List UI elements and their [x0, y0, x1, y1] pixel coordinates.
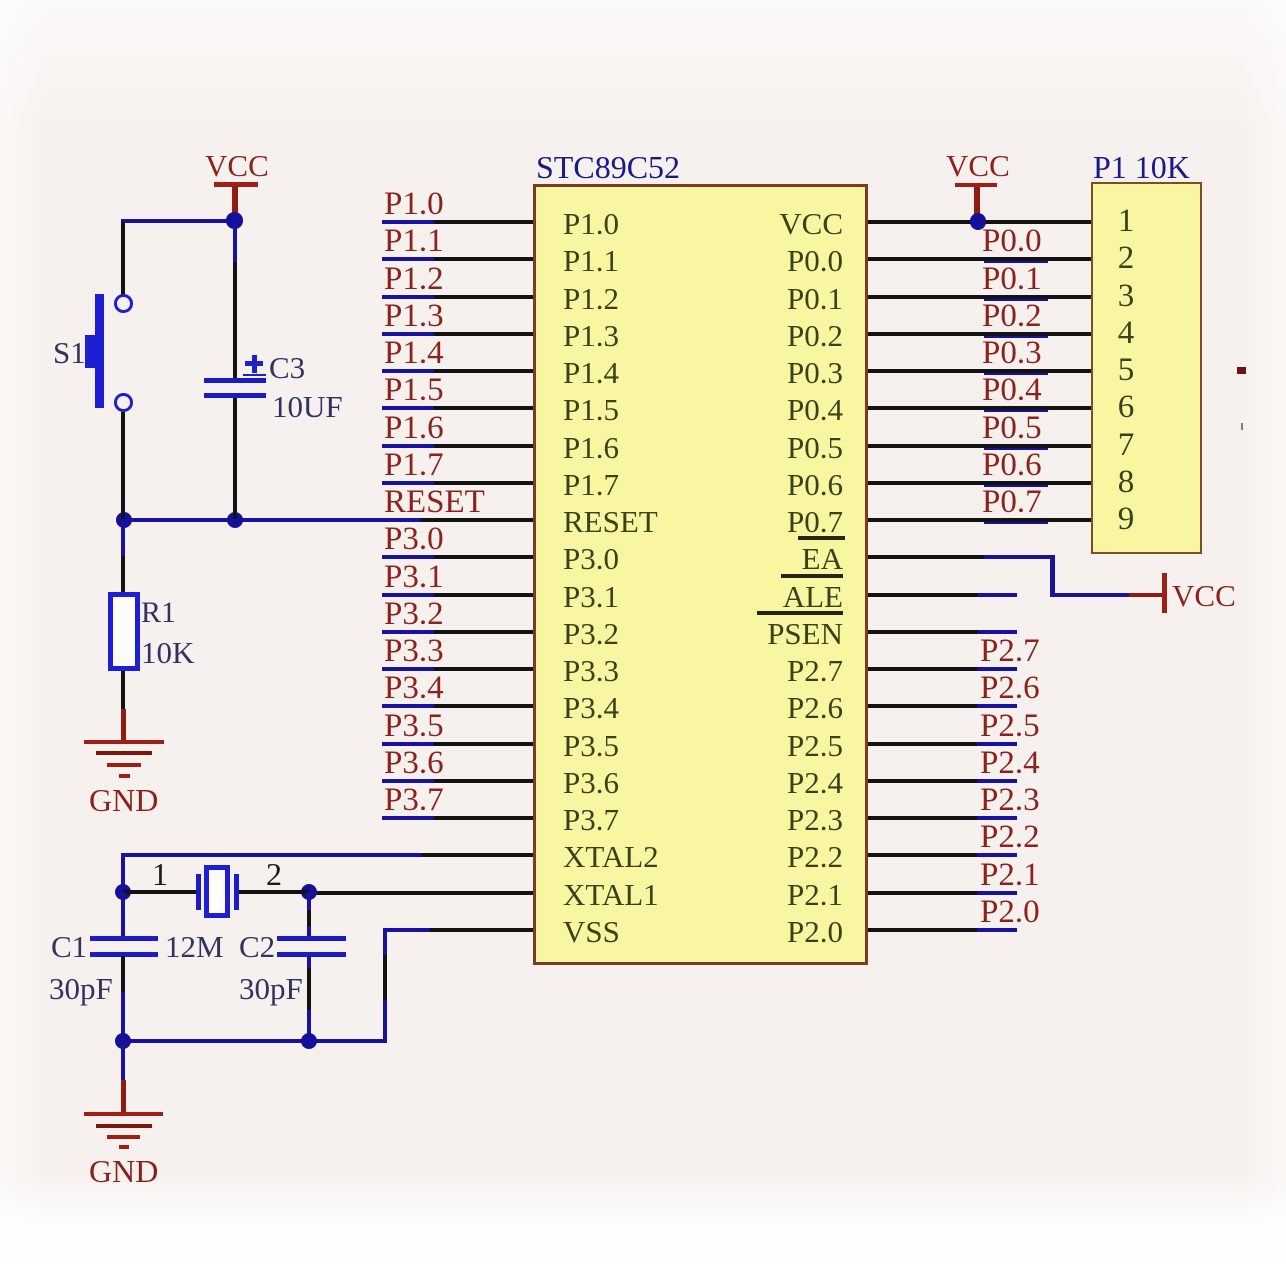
switch S1 designator: [53, 337, 86, 368]
U1 right pin name P2.2: [583, 841, 843, 872]
net label P3.3: [384, 635, 444, 668]
crystal pin number 1: [152, 858, 168, 890]
net label P0.1: [982, 263, 1042, 296]
wire net P1.4 to U1: [434, 369, 533, 373]
wire net P3.3 to U1: [434, 667, 533, 671]
crystal pin number 2: [266, 858, 282, 890]
wire net P1.1 to U1: [434, 257, 533, 261]
net label P1.7: [384, 449, 444, 482]
wire VCC node to S1: [121, 222, 125, 295]
resistor R1 body: [108, 592, 140, 671]
crystal Y1 left plate: [196, 874, 201, 910]
capacitor C3 top plate: [204, 378, 266, 383]
wire C3 to RESET node: [233, 398, 237, 519]
wire C2 to ground rail navy bottom: [307, 1010, 311, 1041]
wire crystal pin2: [238, 890, 309, 894]
junction crystal pin2 node: [301, 884, 317, 900]
ground symbol (rail) bar2: [96, 1124, 152, 1128]
wire U1 P2.4 navy: [977, 779, 1017, 783]
wire XTAL2 navy segment: [121, 853, 422, 857]
VCC symbol (EA) label: [1172, 580, 1236, 611]
crystal value 12M: [165, 931, 224, 962]
ground symbol (R1) bar2: [96, 751, 152, 755]
wire node2 to C2: [307, 910, 311, 926]
net label P3.6: [384, 747, 444, 780]
ground symbol (R1) bar3: [107, 763, 141, 767]
net label wire P1.5: [382, 406, 434, 410]
network pin number 2: [1112, 242, 1140, 275]
wire PSEN stub navy: [978, 630, 1017, 634]
wire EA black: [868, 555, 984, 559]
IC U1 title STC89C52: [536, 151, 680, 183]
net label P3.0: [384, 523, 444, 556]
capacitor C1 bottom plate: [90, 952, 159, 957]
net label P1.2: [384, 263, 444, 296]
net label wire P3.5: [382, 742, 434, 746]
U1 right pin name PSEN: [583, 618, 843, 649]
U1 left pin name P1.6: [563, 432, 619, 463]
net label P0.2: [982, 300, 1042, 333]
capacitor C1 top plate: [90, 936, 159, 941]
U1 right pin name P2.0: [583, 916, 843, 947]
resistor R1 value 10K: [141, 637, 194, 668]
net label RESET: [384, 486, 485, 519]
net label P2.4: [980, 747, 1040, 780]
VCC symbol (reset circuit) label: [205, 150, 269, 181]
wire net P1.5 to U1: [434, 406, 533, 410]
IC U1 STC89C52 body: [533, 184, 868, 965]
net label wire P3.6: [382, 779, 434, 783]
net label P1.3: [384, 300, 444, 333]
network pin number 9: [1112, 503, 1140, 536]
wire U1 P0.3: [868, 369, 1091, 373]
capacitor C1 designator: [51, 931, 87, 962]
wire VSS horizontal: [430, 928, 533, 932]
wire U1 P2.6 navy: [977, 704, 1017, 708]
net label P0.4: [982, 374, 1042, 407]
ground label GND 2: [89, 1155, 158, 1187]
switch S1 bottom terminal: [114, 393, 133, 412]
net label underline P0.3: [984, 373, 1048, 376]
U1 right pin name P2.7: [583, 655, 843, 686]
ground symbol (R1) bar4: [119, 774, 130, 778]
net label P2.0: [980, 896, 1040, 929]
U1 left pin name RESET: [563, 506, 658, 537]
net label P2.7: [980, 635, 1040, 668]
wire C2 to ground rail: [307, 968, 311, 1010]
network pin number 3: [1112, 280, 1140, 313]
net label underline P0.4: [984, 410, 1048, 413]
network pin number 1: [1112, 205, 1140, 238]
VCC symbol stub: [232, 186, 238, 222]
net label wire P3.2: [382, 630, 434, 634]
wire U1 P2.0 black: [868, 928, 977, 932]
U1 right pin name P2.1: [583, 879, 843, 910]
wire net P1.2 to U1: [434, 295, 533, 299]
VCC symbol bar: [214, 182, 258, 187]
net label wire P3.4: [382, 704, 434, 708]
wire PSEN stub black: [868, 630, 978, 634]
U1 right pin name EA: [583, 543, 843, 574]
U1 left pin name P1.2: [563, 283, 619, 314]
wire U1 P0.7: [868, 518, 1091, 522]
wire XTAL2 corner down: [121, 853, 125, 894]
net label wire P3.7: [382, 816, 434, 820]
wire VSS vertical navy top: [383, 928, 387, 955]
ground symbol (rail) bar3: [107, 1135, 140, 1139]
wire VCC node to C3: [233, 262, 237, 378]
U1 left pin name P1.4: [563, 357, 619, 388]
ground symbol (rail) bar4: [119, 1145, 130, 1149]
wire R1 to GND black: [121, 671, 125, 709]
capacitor C3 plus sign h: [245, 361, 263, 366]
wire EA corner down: [1050, 555, 1055, 595]
wire U1 VCC pin to node: [868, 220, 978, 224]
U1 left pin name XTAL1: [563, 879, 659, 910]
wire RESET navy segment: [121, 518, 421, 522]
network pin number 6: [1112, 391, 1140, 424]
net label P3.5: [384, 710, 444, 743]
wire VSS vertical black: [383, 955, 387, 1000]
junction ground rail right: [301, 1033, 317, 1049]
wire U1 P0.0: [868, 257, 1091, 261]
capacitor C2 designator: [239, 931, 275, 962]
net label P3.7: [384, 784, 444, 817]
U1 right pin name P0.1: [583, 283, 843, 314]
switch S1 top terminal: [114, 294, 133, 313]
ground symbol (rail) bar1: [84, 1112, 163, 1116]
wire C1 to ground rail navy: [121, 992, 125, 1041]
net label wire P3.3: [382, 667, 434, 671]
U1 left pin name P3.0: [563, 543, 619, 574]
wire U1 P0.5: [868, 444, 1091, 448]
wire VCC node to C3 navy: [233, 222, 237, 262]
junction VCC node: [226, 212, 242, 228]
U1 left pin name XTAL2: [563, 841, 659, 872]
capacitor C3 value 10UF: [272, 391, 343, 422]
wire VSS vertical navy: [383, 1000, 387, 1043]
net label wire P1.4: [382, 369, 434, 373]
switch S1 actuator bar: [95, 294, 104, 408]
wire U1 P0.6: [868, 481, 1091, 485]
capacitor C2 top plate: [277, 936, 346, 941]
net label P0.7: [982, 486, 1042, 519]
net label P1.4: [384, 337, 444, 370]
U1 left pin name P3.5: [563, 730, 619, 761]
wire ground rail horizontal: [121, 1039, 386, 1043]
wire node1 to C1: [121, 892, 125, 936]
net label wire P3.0: [382, 555, 434, 559]
network pin number 7: [1112, 429, 1140, 462]
U1 right pin name P0.4: [583, 394, 843, 425]
net label P2.1: [980, 859, 1040, 892]
U1 left pin name P1.1: [563, 245, 619, 276]
capacitor C2 bottom plate: [277, 952, 346, 957]
net label underline P0.2: [984, 336, 1048, 339]
wire EA to VCC red: [1129, 593, 1163, 598]
wire VSS horizontal navy: [384, 928, 430, 932]
net label P0.3: [982, 337, 1042, 370]
wire C1 to ground rail black: [121, 956, 125, 992]
VCC symbol (network) bar: [955, 183, 997, 188]
wire S1 to RESET node: [121, 412, 125, 519]
stray mark 2: [1241, 423, 1244, 431]
net label P2.3: [980, 784, 1040, 817]
U1 right pin name P0.2: [583, 320, 843, 351]
wire U1 P2.2 black: [868, 853, 977, 857]
wire net P3.4 to U1: [434, 704, 533, 708]
wire U1 P2.4 black: [868, 779, 977, 783]
wire U1 P2.7 black: [868, 667, 977, 671]
net label underline P0.6: [984, 485, 1048, 488]
net label P0.0: [982, 225, 1042, 258]
ground label GND: [89, 784, 158, 816]
U1 EA overline: [798, 536, 845, 540]
resistor R1 designator: [141, 598, 176, 628]
wire VCC node to network pin1: [978, 220, 1091, 224]
wire U1 P2.7 navy: [977, 667, 1017, 671]
net label P3.4: [384, 672, 444, 705]
wire U1 P2.1 navy: [977, 891, 1017, 895]
net label underline P0.7: [984, 522, 1048, 525]
wire net P3.5 to U1: [434, 742, 533, 746]
wire U1 P2.6 black: [868, 704, 977, 708]
net label underline P0.1: [984, 299, 1048, 302]
net label wire P1.1: [382, 257, 434, 261]
wire EA to VCC navy: [1050, 593, 1129, 597]
net label wire P1.2: [382, 295, 434, 299]
wire XTAL1 from crystal: [309, 891, 533, 895]
U1 left pin name P3.6: [563, 767, 619, 798]
U1 left pin name VSS: [563, 916, 620, 947]
net label P2.6: [980, 672, 1040, 705]
VCC symbol (network) label: [946, 150, 1010, 181]
wire node2 to C2 navy top: [307, 892, 311, 910]
U1 right pin name P0.6: [583, 469, 843, 500]
wire U1 P2.5 black: [868, 742, 977, 746]
wire net P3.2 to U1: [434, 630, 533, 634]
net label P1.0: [384, 188, 444, 221]
U1 left pin name P1.5: [563, 394, 619, 425]
net label underline P0.5: [984, 448, 1048, 451]
ground symbol (R1) bar1: [84, 740, 164, 744]
U1 right pin name ALE: [583, 581, 843, 612]
U1 left pin name P3.3: [563, 655, 619, 686]
network pin number 8: [1112, 466, 1140, 499]
net label wire P1.7: [382, 481, 434, 485]
U1 right pin name P0.0: [583, 245, 843, 276]
wire rail to GND navy: [121, 1043, 125, 1080]
U1 left pin name P3.4: [563, 692, 619, 723]
net label P0.6: [982, 449, 1042, 482]
wire U1 P2.3 black: [868, 816, 977, 820]
U1 left pin name P1.7: [563, 469, 619, 500]
U1 right pin name P2.3: [583, 804, 843, 835]
crystal Y1 body: [204, 865, 230, 918]
wire U1 P2.2 navy: [977, 853, 1017, 857]
junction network VCC node: [970, 213, 986, 229]
U1 ALE overline: [781, 574, 843, 578]
wire U1 P2.1 black: [868, 891, 977, 895]
net label P1.5: [384, 374, 444, 407]
U1 right pin name P0.7: [583, 506, 843, 537]
capacitor C1 value 30pF: [49, 973, 113, 1004]
wire node2 to C2 navy bottom: [307, 926, 311, 936]
capacitor C3 designator: [269, 352, 305, 383]
wire RESET node to R1 navy: [121, 522, 125, 556]
wire net P1.3 to U1: [434, 332, 533, 336]
U1 left pin name P3.1: [563, 581, 619, 612]
wire U1 P0.2: [868, 332, 1091, 336]
net label wire P1.6: [382, 444, 434, 448]
wire VCC node horizontal: [121, 219, 237, 223]
wire net P1.0 to U1: [434, 220, 533, 224]
U1 right pin name P0.3: [583, 357, 843, 388]
resistor network P1 body: [1091, 182, 1202, 554]
wire net P1.7 to U1: [434, 481, 533, 485]
net label P3.2: [384, 598, 444, 631]
wire EA navy: [984, 555, 1055, 559]
U1 right pin name P2.4: [583, 767, 843, 798]
wire C2 to ground rail navy top: [307, 956, 311, 968]
wire net P3.1 to U1: [434, 593, 533, 597]
net label P1.1: [384, 225, 444, 258]
net label wire P3.1: [382, 593, 434, 597]
junction S1/R1 node: [116, 512, 132, 528]
net label underline P0.0: [984, 261, 1048, 264]
network pin number 5: [1112, 354, 1140, 387]
U1 left pin name P1.0: [563, 208, 619, 239]
wire ALE stub black: [868, 593, 978, 597]
VCC symbol (network) stub: [974, 187, 980, 219]
wire net P3.7 to U1: [434, 816, 533, 820]
wire ALE stub navy: [978, 593, 1017, 597]
junction C3 bottom node: [227, 512, 243, 528]
wire net P3.6 to U1: [434, 779, 533, 783]
net label P3.1: [384, 561, 444, 594]
wire U1 P2.0 navy: [977, 928, 1017, 932]
wire rail to GND red: [121, 1080, 126, 1113]
capacitor C3 polarity tick: [243, 374, 266, 377]
capacitor C2 value 30pF: [239, 973, 303, 1004]
U1 left pin name P3.7: [563, 804, 619, 835]
wire U1 P0.1: [868, 295, 1091, 299]
stray mark 1: [1237, 367, 1246, 374]
U1 right pin name P0.5: [583, 432, 843, 463]
wire net P1.6 to U1: [434, 444, 533, 448]
net label wire P1.0: [382, 220, 434, 224]
wire U1 P2.3 navy: [977, 816, 1017, 820]
U1 right pin name P2.5: [583, 730, 843, 761]
U1 right pin name VCC: [583, 208, 843, 239]
junction crystal pin1 node: [115, 884, 131, 900]
wire net P3.0 to U1: [434, 555, 533, 559]
wire R1 to GND red: [121, 709, 126, 742]
capacitor C3 plus sign v: [252, 355, 257, 373]
wire RESET node to R1 black: [121, 556, 125, 592]
VCC symbol (EA) bar: [1162, 573, 1167, 613]
wire U1 P2.5 navy: [977, 742, 1017, 746]
net label P1.6: [384, 412, 444, 445]
switch S1 button: [85, 335, 104, 368]
resistor network title P1 10K: [1093, 151, 1190, 183]
net label P2.5: [980, 710, 1040, 743]
U1 left pin name P1.3: [563, 320, 619, 351]
wire crystal pin1: [123, 890, 196, 894]
capacitor C3 bottom plate: [204, 393, 266, 398]
junction ground rail left: [115, 1033, 131, 1049]
U1 left pin name P3.2: [563, 618, 619, 649]
wire U1 P0.4: [868, 406, 1091, 410]
U1 right pin name P2.6: [583, 692, 843, 723]
U1 PSEN overline: [757, 611, 843, 615]
net label P2.2: [980, 821, 1040, 854]
crystal Y1 right plate: [234, 874, 239, 910]
network pin number 4: [1112, 317, 1140, 350]
net label wire P1.3: [382, 332, 434, 336]
wire XTAL2 black segment: [422, 853, 533, 857]
net label P0.5: [982, 412, 1042, 445]
wire RESET black segment: [421, 518, 533, 522]
